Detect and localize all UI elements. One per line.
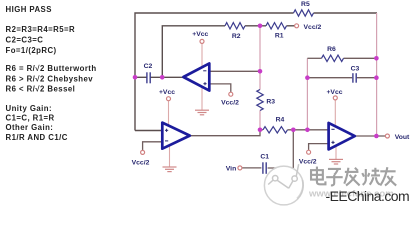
watermark chinese text you [380,167,396,185]
wire U3 noninverting input to Vcc/2 [309,144,329,151]
svg-text:Vcc/2: Vcc/2 [299,158,317,165]
LEFT TEXT [6,5,97,142]
wire Vin to C1 [242,167,261,169]
wire +Vcc stub U3 [334,100,336,126]
wire ground stem U3 [335,146,337,159]
svg-text:R6 = R/√2 Butterworth: R6 = R/√2 Butterworth [6,64,97,73]
terminal Vin [238,166,242,170]
WIRES-MED [143,13,386,168]
wire U2 output [190,130,260,136]
ground under U2 [163,167,177,172]
OPAMP PIN MARKS [165,71,335,144]
WIRES-DARK [135,13,377,131]
U3 minus mark [331,128,334,130]
terminal +Vcc U2 [167,97,171,101]
svg-text:Vin: Vin [226,166,236,173]
U2 plus mark [165,129,168,132]
resistor R5 [294,10,314,16]
wire +Vcc stub U1 [201,43,203,67]
PARTS [147,10,356,174]
U1 minus mark [203,70,206,72]
svg-text:Fo=1/(2pRC): Fo=1/(2pRC) [6,46,57,55]
terminal Vcc/2 U1 [229,92,233,96]
wire C3 right lead [357,77,377,79]
node junction output [374,134,379,139]
terminal Vcc/2 U3 [307,150,311,154]
svg-text:C2=C3=C: C2=C3=C [6,35,44,44]
svg-text:R2: R2 [232,33,241,40]
wire U3 output to Vout [355,135,386,137]
svg-text:Unity Gain:: Unity Gain: [6,104,53,113]
watermark chinese text fa [344,168,359,186]
op-amp U2 [162,123,190,149]
svg-text:R3: R3 [266,98,275,105]
TERMINALS [141,24,390,170]
wire C2 left lead [135,76,147,78]
watermark chinese text shao [362,168,380,185]
svg-text:C2: C2 [144,63,153,70]
svg-text:Vcc/2: Vcc/2 [221,100,239,107]
node junction C2 right [160,75,165,80]
wire U2 inverting input to Vcc/2 [143,142,163,151]
terminal +Vcc U1 [200,39,204,43]
op-amp U1 [183,63,209,90]
svg-text:+Vcc: +Vcc [326,89,342,96]
wire ground stem U2 [169,145,171,166]
svg-text:R4: R4 [276,116,285,123]
svg-text:C1: C1 [260,154,269,161]
svg-text:R6 < R/√2 Bessel: R6 < R/√2 Bessel [6,84,76,93]
capacitor C2 [147,72,150,83]
wire +Vcc stub U2 [168,101,170,126]
capacitor C1 [263,162,266,174]
ground under U1 [195,110,209,115]
wire top frame left segment [135,13,294,131]
wire inner frame [162,26,225,78]
svg-text:C1=C, R1=R: C1=C, R1=R [6,113,55,122]
op-amp U3 [329,123,355,149]
svg-text:R1: R1 [275,33,284,40]
resistor R4 [263,127,288,133]
wire ground stem U1 [201,87,203,110]
wire R1 to terminal [287,25,295,27]
watermark logo ring [264,164,303,205]
svg-text:R6 > R/√2 Chebyshev: R6 > R/√2 Chebyshev [6,74,94,83]
svg-text:+Vcc: +Vcc [192,31,208,38]
wire feedback right vertical [376,13,378,136]
U1 plus mark [203,82,206,85]
node junction R3 bottom [258,128,263,133]
svg-text:Vout: Vout [395,134,410,141]
GROUNDS [163,110,344,171]
wire node B vertical upper (R2R1 junction to R3) [259,26,261,90]
svg-text:HIGH PASS: HIGH PASS [6,5,52,14]
node junction R6C3 left lower [305,128,310,133]
svg-text:Other Gain:: Other Gain: [6,123,54,132]
svg-text:Vcc/2: Vcc/2 [132,159,150,166]
wire C1 to R4 vertical [268,130,294,168]
watermark chinese text zi [326,169,343,186]
WATERMARK [264,164,409,205]
svg-text:C3: C3 [351,66,360,73]
svg-text:R6: R6 [327,46,336,53]
terminal Vout [385,134,389,138]
wire top frame right segment [314,12,378,14]
node junction U1 inverting [258,69,263,74]
node junction C2 left [133,75,138,80]
resistor R2 [225,23,245,29]
terminal +Vcc U3 [333,96,337,100]
watermark chinese text dian [311,167,325,185]
svg-text:Vcc/2: Vcc/2 [304,24,322,31]
wire op2 + input [135,130,162,132]
resistor R3 [257,90,263,111]
svg-text:R5: R5 [301,1,310,8]
wire R2 to R1 [245,25,266,27]
NETLABELS [132,1,410,172]
svg-text:R2=R3=R4=R5=R: R2=R3=R4=R5=R [6,25,76,34]
svg-text:+Vcc: +Vcc [159,89,175,96]
capacitor C3 [353,73,356,83]
node junction R6 right [374,56,379,61]
OPAMPS [162,63,354,149]
wire R4 right lead to U3 inverting input [288,129,329,131]
wire node B vertical lower (R3 to R4) [259,111,261,130]
wire C3 left lead [307,77,352,79]
node junction C3 right [374,75,379,80]
node junction C3 left [305,75,310,80]
resistor R1 [266,23,287,29]
node junction C1 branch [291,128,296,133]
terminal Vcc/2 U2 [141,150,145,154]
node junction R2-R1 [258,24,263,29]
wire U1 inverting input [210,70,260,72]
wire C2 right lead to op-amp U1 output [150,76,184,78]
wire R6/C3 left vertical [306,58,308,130]
wire U1 noninverting input to Vcc/2 [210,84,230,92]
U3 plus mark [331,141,334,144]
wire R4 left lead [260,129,263,131]
resistor R6 [322,55,344,61]
wire R6 left lead [307,57,321,59]
ground under U3 [329,159,343,164]
U2 minus mark [165,140,168,142]
svg-text:R1/R AND C1/C: R1/R AND C1/C [6,133,68,142]
wire R6 right lead [344,57,377,59]
terminal Vcc/2 R1 [295,24,299,28]
SUPPLY [169,43,337,166]
svg-text:-EEChina.com: -EEChina.com [326,188,410,204]
